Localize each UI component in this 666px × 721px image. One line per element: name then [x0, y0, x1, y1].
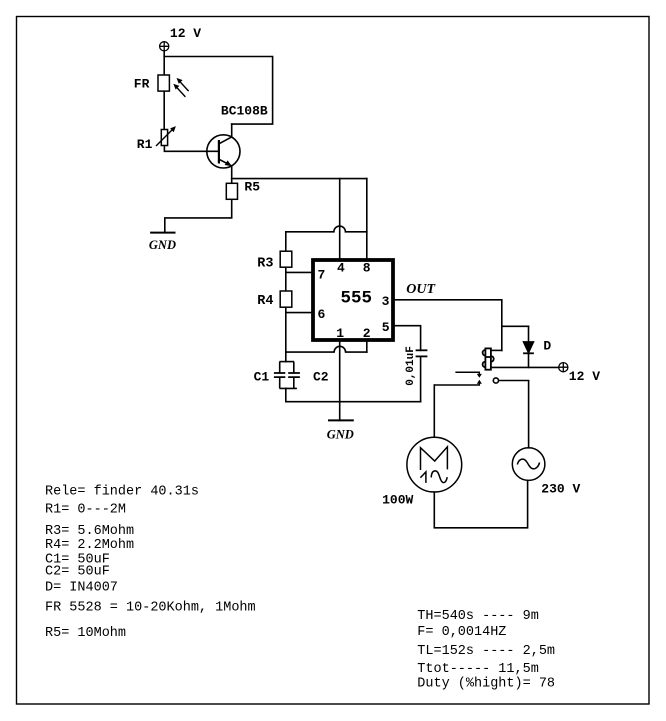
relay coil	[483, 348, 494, 369]
lamp motor 100W	[407, 437, 462, 492]
svg-text:D= IN4007: D= IN4007	[45, 581, 118, 596]
wire pin6	[286, 312, 312, 314]
wire coil bottom to 12V terminal	[491, 366, 559, 368]
wire pin2 vertical	[366, 342, 368, 352]
svg-text:R3: R3	[257, 256, 273, 271]
svg-text:D: D	[543, 339, 551, 354]
wire hop from cap column to pin2	[286, 346, 367, 352]
photo arrows into FR	[173, 78, 188, 97]
notes text block right	[417, 609, 555, 692]
svg-text:BC108B: BC108B	[221, 103, 268, 118]
svg-text:TL=152s ---- 2,5m: TL=152s ---- 2,5m	[417, 644, 555, 659]
resistor R5	[226, 183, 237, 199]
relay switch contact	[434, 372, 498, 385]
wire R5 to ground	[165, 199, 232, 232]
wire pin3 OUT to relay	[395, 300, 502, 351]
svg-text:R1= 0---2M: R1= 0---2M	[45, 503, 126, 518]
wire diode bottom	[528, 353, 530, 367]
wire R4 down to hop2	[285, 307, 287, 352]
wire emitter tee to 555 pins 4 8	[232, 178, 367, 180]
svg-text:C1: C1	[254, 369, 270, 384]
wire switch to lamp top	[433, 385, 435, 437]
svg-text:R4= 2.2Mohm: R4= 2.2Mohm	[45, 538, 134, 553]
svg-text:7: 7	[317, 267, 325, 282]
AC source 230V	[512, 448, 545, 481]
svg-text:12 V: 12 V	[170, 26, 201, 41]
transistor Q1 BC108B	[207, 135, 240, 168]
wire cap C1C2 bottom feed	[285, 388, 287, 401]
svg-text:TH=540s ---- 9m: TH=540s ---- 9m	[417, 609, 539, 624]
wire top rail to collector	[164, 57, 272, 125]
svg-text:OUT: OUT	[406, 282, 436, 297]
wire collector vertical	[231, 124, 233, 137]
resistor R3	[280, 251, 292, 267]
resistor R4	[280, 291, 292, 307]
resistor R1 (variable)	[161, 130, 167, 146]
svg-text:6: 6	[317, 307, 325, 322]
svg-text:R5: R5	[244, 180, 260, 195]
svg-text:GND: GND	[327, 428, 354, 442]
svg-text:230 V: 230 V	[541, 481, 580, 496]
svg-text:100W: 100W	[382, 492, 413, 507]
svg-text:R4: R4	[257, 294, 273, 309]
svg-text:C2: C2	[313, 369, 329, 384]
svg-text:R5= 10Mohm: R5= 10Mohm	[45, 626, 126, 641]
op-amp U1 555 timer box	[313, 260, 393, 340]
wire hop from R3 top to pin8 line	[286, 226, 367, 232]
wire supply terminal to FR	[163, 51, 165, 75]
capacitor 0,01uF	[416, 350, 428, 356]
wire lamp bottom loop	[434, 480, 527, 527]
wire FR to R1	[163, 91, 165, 129]
resistor FR (photoresistor)	[158, 75, 169, 91]
svg-text:FR: FR	[134, 76, 150, 91]
svg-text:GND: GND	[149, 238, 176, 252]
wire hop1 left end down to R3	[285, 232, 287, 251]
svg-text:R1: R1	[137, 137, 153, 152]
svg-text:8: 8	[363, 261, 371, 276]
wire pin5 to cap	[395, 326, 421, 351]
svg-text:Rele= finder 40.31s: Rele= finder 40.31s	[45, 485, 199, 500]
svg-text:555: 555	[340, 289, 372, 309]
svg-text:C2= 50uF: C2= 50uF	[45, 565, 110, 580]
power terminal 12V top	[160, 42, 169, 51]
diode D	[523, 342, 534, 354]
svg-text:5: 5	[382, 320, 390, 335]
wire branch to diode	[502, 325, 529, 327]
wire 001uF cap bottom	[420, 356, 422, 401]
wire R1 to transistor base	[164, 146, 219, 152]
wire pin4 vertical	[339, 179, 341, 259]
wire pin7	[286, 271, 312, 273]
wire pin1 vertical to ground	[339, 342, 341, 421]
svg-text:1: 1	[336, 326, 344, 341]
capacitors C1 C2 parallel	[274, 362, 300, 389]
power terminal 12V right	[559, 363, 568, 372]
wire switch contact to AC source	[499, 381, 529, 448]
wire R3 to R4	[285, 267, 287, 291]
R1 arrow diagonal	[156, 126, 176, 146]
svg-text:2: 2	[363, 326, 371, 341]
svg-text:Ttot----- 11,5m: Ttot----- 11,5m	[417, 662, 539, 677]
wire emitter vertical to R5	[231, 166, 233, 183]
svg-text:FR 5528 = 10-20Kohm, 1Mohm: FR 5528 = 10-20Kohm, 1Mohm	[45, 601, 256, 616]
wire cap C1C2 feed	[285, 352, 287, 362]
notes text block left	[45, 485, 256, 642]
wire pin8 vertical	[366, 179, 368, 259]
svg-text:0,01uF: 0,01uF	[405, 346, 417, 386]
wire diode top	[528, 326, 530, 341]
svg-text:Duty (%hight)= 78: Duty (%hight)= 78	[417, 677, 555, 692]
wire relay coil top link	[491, 349, 502, 351]
svg-text:3: 3	[382, 294, 390, 309]
svg-text:4: 4	[337, 261, 345, 276]
svg-text:F= 0,0014HZ: F= 0,0014HZ	[417, 625, 506, 640]
wire bottom rail	[286, 401, 421, 403]
svg-text:12 V: 12 V	[569, 369, 600, 384]
ground left	[150, 232, 175, 234]
svg-text:R3= 5.6Mohm: R3= 5.6Mohm	[45, 524, 134, 539]
ground center	[328, 419, 354, 421]
